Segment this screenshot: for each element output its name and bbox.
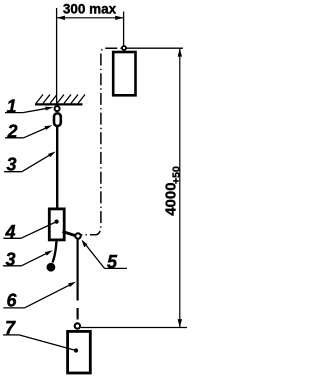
svg-text:2: 2 [7, 122, 18, 142]
bottom extension line [81, 327, 187, 329]
svg-text:1: 1 [7, 96, 17, 116]
hook ring on load 7 [75, 323, 80, 328]
svg-text:4000: 4000 [162, 182, 179, 215]
device 4 box [49, 209, 64, 240]
rope end below device (item 3) [53, 241, 57, 263]
label 4 [3, 220, 58, 243]
rope 3 upper segment [56, 127, 58, 211]
label 7 [3, 318, 78, 353]
label 3 (upper) [4, 152, 56, 175]
label 3 (lower) [3, 249, 53, 269]
svg-text:300 max: 300 max [63, 1, 117, 16]
chain link 2 [54, 113, 61, 126]
dimension 300 max: dimension line with arrows [57, 16, 124, 20]
ceiling hatching [36, 95, 85, 104]
label 2 [5, 122, 52, 142]
rope end knob [47, 263, 56, 272]
pulley 5 [75, 233, 80, 238]
main rope 6 (solid part) [76, 239, 78, 301]
arm from device to pulley [63, 232, 77, 237]
main rope 6 (broken continuation) [76, 308, 78, 320]
dimension 300 max: right extension line [123, 12, 125, 46]
label 5 [82, 240, 128, 273]
ring on auxiliary load [122, 46, 126, 50]
top extension line [126, 47, 183, 49]
label 6 [3, 282, 76, 311]
auxiliary load box (top right) [113, 52, 135, 95]
dimension 4000 line with arrows [178, 48, 182, 327]
load 7 box [68, 331, 91, 373]
dimension 300 max: left extension line [56, 8, 58, 104]
svg-text:4: 4 [5, 222, 16, 242]
svg-text:+50: +50 [170, 166, 182, 184]
ceiling mount line [35, 103, 83, 105]
hook ring 1 (attachment at ceiling) [55, 106, 60, 111]
label 1 [5, 96, 53, 116]
dash-dot rope path (alternate position) [82, 48, 122, 235]
